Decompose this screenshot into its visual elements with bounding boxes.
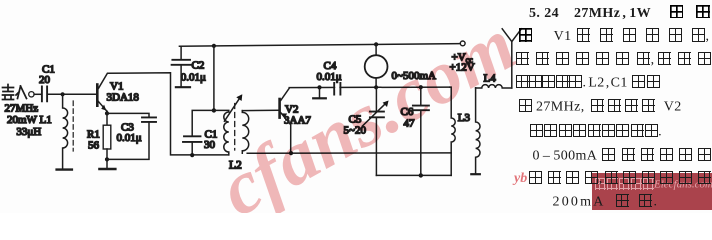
svg-text:C4: C4 bbox=[324, 60, 337, 72]
meter stub from rail bbox=[375, 44, 377, 55]
lower rail (C6 return) bbox=[376, 174, 451, 176]
wire emitter to R1 bbox=[106, 111, 108, 125]
transistor V1 collector + wire to tank bottom bbox=[99, 73, 229, 155]
C5 arrowhead bbox=[383, 101, 389, 108]
L2 adjustable arrow bbox=[224, 96, 241, 121]
V2 emitter junction dot bbox=[289, 151, 293, 155]
antenna mast bbox=[511, 42, 513, 88]
caption line 1: 5.24 27MHz 1W transmitter heading bbox=[529, 5, 712, 22]
meter 0-500mA circle bbox=[365, 55, 388, 78]
ground bar under C2 bbox=[176, 86, 190, 88]
inductor L3 left winding bbox=[450, 87, 456, 175]
transformer L2 primary winding bbox=[214, 110, 229, 154]
capacitor C2 stub from rail bbox=[180, 46, 181, 59]
caption line 8 bbox=[529, 171, 711, 187]
svg-text:0.01μ: 0.01μ bbox=[181, 72, 206, 84]
watermark band text bbox=[594, 178, 712, 191]
capacitor C7 branch wire bbox=[192, 110, 214, 135]
transistor V2 emitter bbox=[281, 113, 291, 153]
svg-text:C2: C2 bbox=[192, 59, 205, 71]
caption line 3 bbox=[516, 52, 711, 68]
watermark red band bottom-right bbox=[592, 173, 712, 210]
ground under L1 bbox=[57, 168, 72, 170]
inductor L1 bbox=[63, 94, 68, 168]
caption line 5 bbox=[519, 99, 682, 115]
svg-text:0.01μ: 0.01μ bbox=[317, 71, 342, 83]
caption line 9 bbox=[553, 194, 660, 210]
capacitor C5 variable bbox=[370, 112, 384, 118]
capacitor C5 lead bbox=[375, 87, 377, 111]
wire C1 to node A bbox=[48, 93, 96, 95]
wire input terminal to C1 bbox=[34, 93, 41, 95]
capacitor C6 lead bbox=[420, 87, 422, 105]
transistor V1 emitter bbox=[99, 102, 107, 112]
capacitor C1 bbox=[42, 87, 47, 102]
top supply rail bbox=[179, 44, 460, 47]
watermark cfans.com bbox=[206, 0, 615, 233]
rail junction dot at meter bbox=[374, 42, 378, 46]
meter bottom stub bbox=[375, 78, 377, 87]
C6 top junction dot bbox=[419, 85, 423, 89]
wire emitter to C3 top bbox=[107, 113, 149, 117]
Vcc terminal bbox=[460, 41, 465, 46]
resistor R1 bbox=[103, 125, 111, 149]
capacitor C7 (tank cap C1 30) bbox=[183, 136, 202, 142]
svg-text:20: 20 bbox=[39, 74, 51, 86]
input terminal bbox=[29, 92, 34, 97]
capacitor C6 bbox=[413, 106, 429, 111]
svg-text:56: 56 bbox=[88, 140, 100, 152]
meter bottom junction dot bbox=[374, 85, 378, 89]
L1 adjustable core dashed line bbox=[72, 101, 74, 151]
transistor V1 base bar bbox=[96, 85, 99, 106]
chassis stub bbox=[319, 87, 321, 97]
V1 emitter arrowhead bbox=[101, 105, 106, 111]
caption line 4 bbox=[516, 75, 660, 91]
capacitor C2 bbox=[172, 60, 191, 65]
transistor V2 collector bbox=[281, 87, 450, 100]
svg-text:33μH: 33μH bbox=[16, 126, 41, 138]
input label "shu ru" (CJK glyphs drawn as strokes) bbox=[3, 85, 27, 100]
inductor L3 right winding bbox=[476, 88, 480, 174]
V2 emitter arrowhead (PNP points to bar) bbox=[281, 113, 287, 118]
capacitor C4 (series gap) bbox=[334, 83, 340, 95]
caption line 6 bbox=[530, 124, 662, 140]
chassis junction dot before C4 bbox=[317, 85, 321, 89]
C5 arrow bbox=[363, 102, 388, 126]
node A junction bbox=[61, 92, 65, 96]
antenna arms bbox=[502, 29, 521, 42]
svg-text:27MHz: 27MHz bbox=[5, 103, 39, 115]
svg-text:0.01μ: 0.01μ bbox=[117, 132, 142, 144]
rail junction dot at C2 feed bbox=[212, 44, 216, 48]
bottom rail right of L2 bbox=[247, 152, 451, 154]
transformer L2 secondary winding bbox=[242, 111, 248, 154]
svg-text:20mW L1: 20mW L1 bbox=[7, 114, 52, 126]
C2 lead down bbox=[180, 65, 182, 86]
caption line 7 bbox=[533, 148, 712, 164]
wire L2 secondary to V2 base bbox=[242, 109, 278, 111]
wire rail to tank top bbox=[213, 46, 215, 111]
svg-text:3DA18: 3DA18 bbox=[107, 92, 140, 104]
ground under R1 bbox=[99, 168, 115, 170]
inductor L4 bbox=[476, 85, 512, 88]
L2 arrowhead bbox=[236, 94, 242, 101]
C7 lead to bottom wire bbox=[191, 142, 193, 155]
capacitor C3 bbox=[142, 117, 156, 122]
C6 bottom junction dot bbox=[419, 173, 423, 177]
watermark yb fragment bbox=[514, 171, 527, 187]
transistor V2 base bar bbox=[278, 99, 281, 118]
transformer L2 core dashed bbox=[234, 104, 236, 151]
V1 emitter junction dot bbox=[105, 111, 109, 115]
R1 bottom junction dot bbox=[105, 157, 109, 161]
tank top junction dot bbox=[212, 108, 216, 112]
wire C3 bottom loop bbox=[107, 122, 149, 159]
ground under L3 right winding bbox=[471, 173, 480, 175]
chassis bar bbox=[313, 97, 326, 99]
caption line 2 bbox=[519, 28, 709, 45]
C7 bottom junction dot bbox=[190, 153, 194, 157]
C4 wire break whiteout bbox=[335, 86, 339, 90]
svg-text:30: 30 bbox=[204, 139, 216, 151]
C6 lead down crossing rail bbox=[420, 111, 422, 176]
wire R1 bottom bbox=[106, 149, 108, 168]
C5 lead down through rail to lower rail bbox=[375, 118, 377, 176]
